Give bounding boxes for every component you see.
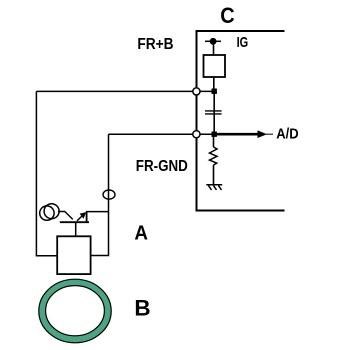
node IG dot	[210, 38, 217, 45]
wire node2 to resistor	[213, 137, 215, 148]
fuse box U1	[204, 55, 226, 77]
ground	[206, 184, 222, 186]
wire resistor to ground	[213, 165, 215, 185]
resistor R1	[210, 147, 218, 165]
svg-text:FR+B: FR+B	[137, 36, 173, 53]
wire fuse box to node	[213, 77, 215, 91]
wire emitter to right drop	[86, 211, 109, 213]
svg-text:A/D: A/D	[276, 126, 299, 143]
sensor rotor ring B outer	[39, 279, 111, 343]
box A	[57, 236, 90, 274]
wire IG dot to fuse box	[213, 41, 215, 54]
node square junction 1	[212, 89, 217, 94]
wire coil to transistor	[58, 212, 73, 220]
svg-text:FR-GND: FR-GND	[136, 158, 188, 175]
svg-text:A: A	[134, 222, 148, 245]
connector pin circle 2	[193, 131, 200, 138]
transistor Q1 base bar	[60, 221, 89, 223]
wire node1 to node2	[213, 93, 215, 134]
wire FR-GND row	[109, 133, 215, 135]
wire left drop from FR+B	[36, 91, 57, 255]
wire right drop from FR-GND	[91, 134, 109, 255]
svg-text:B: B	[134, 296, 150, 321]
node square junction 2	[212, 132, 217, 137]
sensor coil circle left	[40, 206, 54, 220]
wire base lead to box A	[75, 222, 77, 237]
transistor Q1 emitter lead	[86, 212, 88, 223]
capacitor C1	[205, 110, 222, 112]
transistor Q1 emitter arrow	[77, 214, 85, 221]
connector grommet ellipse	[103, 190, 115, 199]
ECU box C	[197, 31, 285, 211]
sensor coil circle right	[44, 204, 59, 219]
connector pin circle 1	[193, 88, 200, 95]
sensor rotor ring B inner	[46, 286, 105, 336]
wire A/D arrow	[216, 133, 258, 136]
wire IG tap	[205, 40, 221, 42]
svg-text:IG: IG	[237, 34, 249, 51]
wire FR+B row	[36, 90, 214, 92]
svg-text:C: C	[220, 3, 234, 28]
